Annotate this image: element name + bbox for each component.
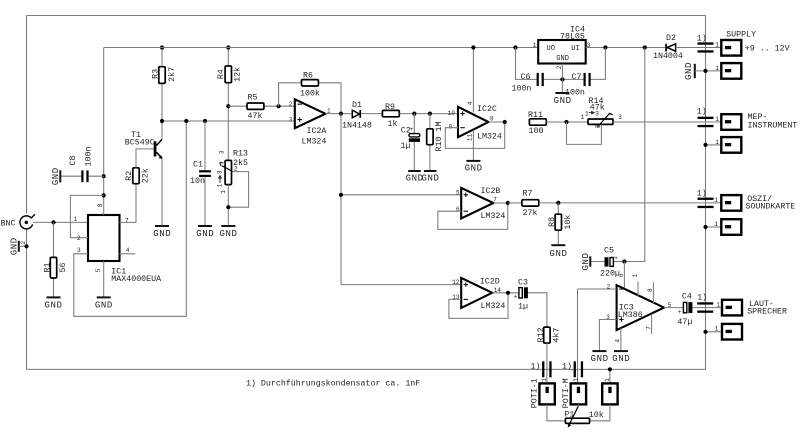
node: POTI ground on bottom wall xyxy=(608,367,612,371)
resistor R11 100 xyxy=(528,111,588,136)
wire: R2 top to T1 base xyxy=(136,149,154,168)
svg-text:8: 8 xyxy=(647,288,654,292)
resistor R8 10k xyxy=(548,203,573,245)
connector OSZI/SOUNDKARTE signal xyxy=(714,194,795,211)
svg-text:27k: 27k xyxy=(523,208,538,218)
node: C7 riser on supply row xyxy=(603,45,607,49)
svg-text:2: 2 xyxy=(607,284,611,291)
svg-text:R13: R13 xyxy=(233,149,248,158)
connector SUPPLY pin GND xyxy=(715,63,741,79)
resistor R5 47k xyxy=(228,94,294,122)
wire: MEP ground pin xyxy=(706,144,722,146)
svg-text:GND: GND xyxy=(591,354,609,364)
node: R4/R5/R13 junction xyxy=(226,104,230,108)
svg-text:220µ: 220µ xyxy=(600,270,620,279)
svg-text:GND: GND xyxy=(549,249,567,259)
svg-text:GND: GND xyxy=(554,96,572,106)
svg-text:1): 1) xyxy=(697,106,707,116)
node: R11/R14 wiper junction xyxy=(564,120,568,124)
svg-text:2: 2 xyxy=(77,235,81,242)
node: IC1 pin3 riser junction xyxy=(184,119,188,123)
svg-text:2: 2 xyxy=(20,241,27,245)
wire: IC1 pin 5 stub xyxy=(103,261,105,297)
svg-text:R6: R6 xyxy=(303,72,313,81)
svg-text:GND: GND xyxy=(196,229,214,239)
node: C6 on rail xyxy=(513,45,517,49)
connector LAUT-SPRECHER signal xyxy=(717,300,788,317)
node: MEP ground on wall xyxy=(703,143,707,147)
wire: shield enclosure right wall xyxy=(705,16,707,370)
node: R5/R6 junction at IC2A pin2 xyxy=(277,104,281,108)
svg-text:100: 100 xyxy=(529,127,544,136)
wire: IC3 pin2 from POTI-M wiper xyxy=(578,288,617,290)
resistor R4 12k xyxy=(217,48,242,161)
node: raw supply rail drop xyxy=(643,45,647,49)
node: BNC signal / R1 junction xyxy=(51,220,55,224)
svg-text:C7: C7 xyxy=(572,73,582,82)
svg-text:12k: 12k xyxy=(233,67,243,82)
svg-text:4: 4 xyxy=(126,247,130,254)
wire: IC3 pin4 stub xyxy=(620,328,622,351)
svg-text:GND: GND xyxy=(95,300,113,310)
svg-text:1: 1 xyxy=(217,183,224,187)
svg-text:+: + xyxy=(678,309,682,316)
wire: shield enclosure top wall xyxy=(27,15,706,17)
svg-text:R3: R3 xyxy=(152,69,161,79)
wire: IC3 pin8 stub xyxy=(652,282,654,303)
svg-text:1: 1 xyxy=(715,42,719,49)
wire: T1 collector up to signal node xyxy=(161,121,163,139)
ground at IC2C pin11 xyxy=(465,161,483,173)
svg-text:1: 1 xyxy=(220,190,227,194)
node: C5/IC3 pin6 junction xyxy=(622,259,626,263)
svg-text:C4: C4 xyxy=(682,293,692,302)
svg-text:1: 1 xyxy=(715,139,719,146)
feedthrough capacitor 1) at POTI-M xyxy=(562,361,583,377)
svg-text:C3: C3 xyxy=(518,279,528,288)
svg-text:1k: 1k xyxy=(388,119,398,129)
svg-text:P1: P1 xyxy=(564,411,574,420)
connector POTI-1 xyxy=(531,378,555,408)
svg-text:LM324: LM324 xyxy=(477,132,502,141)
svg-text:R5: R5 xyxy=(248,94,258,103)
connector POTI-M xyxy=(562,378,586,408)
ground at IC3 pin4 xyxy=(612,351,630,364)
wire: SUPPLY ground pin xyxy=(695,70,722,72)
svg-text:C8: C8 xyxy=(69,156,78,166)
svg-text:5: 5 xyxy=(95,268,102,272)
wire: IC1 pin 4 stub xyxy=(120,253,136,255)
svg-text:10k: 10k xyxy=(563,215,573,230)
capacitor C6 100n xyxy=(512,48,584,94)
node: IC2D output junction xyxy=(506,291,510,295)
svg-text:13: 13 xyxy=(452,294,460,301)
svg-text:100k: 100k xyxy=(300,89,320,99)
svg-text:GND: GND xyxy=(421,174,439,184)
svg-text:1: 1 xyxy=(533,42,537,49)
node: R4 on +5V rail xyxy=(226,45,230,49)
wire: BNC signal to IC1 pin1 xyxy=(33,221,88,223)
svg-text:LM324: LM324 xyxy=(481,302,506,311)
svg-text:BC549C: BC549C xyxy=(125,138,155,147)
wire: IC3 pin6 stub xyxy=(623,262,625,290)
svg-text:4k7: 4k7 xyxy=(551,328,561,343)
svg-text:+: + xyxy=(614,255,618,262)
svg-text:2k7: 2k7 xyxy=(167,67,177,82)
svg-text:100n: 100n xyxy=(512,85,532,94)
svg-text:1µ: 1µ xyxy=(401,142,411,151)
svg-text:1) Durchführungskondensator ca: 1) Durchführungskondensator ca. 1nF xyxy=(246,378,420,388)
wire: raw supply rail down to IC3 xyxy=(624,48,644,262)
capacitor C5 220u electrolytic xyxy=(590,246,624,278)
svg-text:GND: GND xyxy=(51,167,61,185)
connector MEP pin GND xyxy=(715,137,741,153)
svg-text:UO: UO xyxy=(547,45,555,53)
resistor R6 100k feedback xyxy=(279,72,341,114)
connector POTI ground xyxy=(602,378,617,405)
svg-text:47k: 47k xyxy=(248,111,263,121)
svg-text:3: 3 xyxy=(618,114,622,121)
svg-text:SPRECHER: SPRECHER xyxy=(747,308,787,317)
wire: shield enclosure bottom wall xyxy=(27,368,706,370)
svg-text:R11: R11 xyxy=(528,111,543,120)
svg-text:5: 5 xyxy=(456,189,460,196)
svg-text:2: 2 xyxy=(594,124,601,128)
svg-text:IC2C: IC2C xyxy=(477,105,497,114)
capacitor C7 100n xyxy=(565,48,605,98)
svg-text:7: 7 xyxy=(493,196,497,203)
node: C8 junction xyxy=(102,174,106,178)
svg-text:+: + xyxy=(410,126,414,133)
wire: IC3 pin3 to ground xyxy=(599,320,616,352)
svg-text:R12: R12 xyxy=(537,327,546,342)
svg-text:GND: GND xyxy=(581,252,591,270)
svg-text:3: 3 xyxy=(595,110,599,117)
svg-text:100n: 100n xyxy=(85,147,94,167)
connector MEP-INSTRUMENT signal xyxy=(715,113,797,130)
svg-text:GND: GND xyxy=(612,354,630,364)
op-amp IC2C LM324 xyxy=(448,105,502,141)
wire: IC2A output drop to IC2B/IC2D xyxy=(340,114,342,285)
svg-text:6: 6 xyxy=(618,273,625,277)
svg-text:+: + xyxy=(514,294,518,301)
svg-text:GND: GND xyxy=(9,237,19,255)
op-amp IC2D LM324 xyxy=(452,278,505,312)
svg-text:LM324: LM324 xyxy=(481,212,506,221)
node: OSZI ground on wall xyxy=(703,225,707,229)
wire: POTI-M riser xyxy=(577,289,579,383)
trimmer R14 47k xyxy=(567,97,722,145)
wire: IC2B output and feedback xyxy=(438,203,508,230)
svg-text:4: 4 xyxy=(467,101,474,105)
wire: IC3 output xyxy=(664,307,683,309)
svg-text:3: 3 xyxy=(217,170,224,174)
node: shield junction on left wall xyxy=(24,244,28,248)
svg-text:1: 1 xyxy=(74,216,78,223)
svg-text:2: 2 xyxy=(234,166,238,173)
capacitor C8 100n xyxy=(60,147,103,183)
wire: IC1 pin 2 detour xyxy=(70,195,103,237)
feedthrough capacitor 1) at OSZI xyxy=(697,188,714,208)
node: R10 junction xyxy=(428,112,432,116)
ground at IC4 pin 2 xyxy=(554,93,572,106)
op-amp IC1 MAX4000EUA body xyxy=(88,215,161,284)
svg-text:1: 1 xyxy=(632,274,639,278)
svg-text:5: 5 xyxy=(668,302,672,309)
svg-text:1N4004: 1N4004 xyxy=(653,52,683,61)
svg-text:10k: 10k xyxy=(589,410,604,420)
svg-text:9: 9 xyxy=(449,123,453,130)
ground at C1 xyxy=(196,226,214,239)
ground at C2 xyxy=(406,171,424,184)
feedthrough capacitor 1) at SUPPLY xyxy=(697,34,714,53)
node: C2 junction xyxy=(412,112,416,116)
resistor R1 56 xyxy=(43,222,68,297)
svg-text:GND: GND xyxy=(44,300,62,310)
svg-text:47µ: 47µ xyxy=(677,318,692,327)
node: IC2B input branch xyxy=(339,193,343,197)
svg-text:SUPPLY: SUPPLY xyxy=(726,31,756,40)
wire: shield enclosure left wall upper xyxy=(26,16,28,214)
node: SUPPLY ground on wall xyxy=(703,69,707,73)
resistor R2 22k xyxy=(125,168,150,184)
svg-text:POTI-1: POTI-1 xyxy=(531,378,540,408)
wire: IC1 pin 3 detour to signal node xyxy=(74,121,187,316)
svg-text:7: 7 xyxy=(645,326,652,330)
wire: LAUT ground pin xyxy=(706,331,723,333)
svg-text:MAX4000EUA: MAX4000EUA xyxy=(111,275,161,284)
op-amp IC2B LM324 xyxy=(456,187,505,221)
wire: signal node row T1/C1/IC2A xyxy=(162,120,295,122)
ground at BNC shield pin 2 xyxy=(9,237,27,255)
svg-text:1µ: 1µ xyxy=(518,303,528,312)
connector SUPPLY pin + xyxy=(715,31,789,56)
feedthrough capacitor 1) at POTI-1 xyxy=(531,361,552,377)
node: IC2A output junction xyxy=(339,112,343,116)
svg-text:10: 10 xyxy=(448,110,456,117)
transistor T1 BC549C xyxy=(125,131,163,159)
svg-text:1: 1 xyxy=(541,378,548,382)
svg-text:D1: D1 xyxy=(352,101,362,110)
svg-text:1: 1 xyxy=(714,221,718,228)
svg-text:UI: UI xyxy=(571,45,579,53)
svg-text:1: 1 xyxy=(717,302,721,309)
audio amp IC3 LM386 xyxy=(617,285,664,330)
svg-text:INSTRUMENT: INSTRUMENT xyxy=(748,122,798,131)
svg-text:1): 1) xyxy=(697,34,707,44)
svg-text:1: 1 xyxy=(715,116,719,123)
wire: IC2A output row xyxy=(325,113,352,115)
svg-text:C6: C6 xyxy=(521,73,531,82)
svg-text:2: 2 xyxy=(289,101,293,108)
svg-text:GND: GND xyxy=(153,229,171,239)
svg-text:+9 .. 12V: +9 .. 12V xyxy=(745,45,790,54)
resistor R7 27k xyxy=(508,190,722,219)
node: R13 wiper/pin1 junction xyxy=(226,205,230,209)
node: T1 collector junction xyxy=(160,119,164,123)
feedthrough capacitor 1) at MEP xyxy=(697,106,714,127)
svg-text:D2: D2 xyxy=(666,34,676,43)
wire: IC3 pin7 stub xyxy=(651,314,653,334)
node: LAUT ground on wall xyxy=(703,330,707,334)
ground at R8 xyxy=(549,245,567,259)
op-amp IC2A LM324 xyxy=(289,99,331,146)
ground at IC1 pin 5 xyxy=(95,297,113,310)
svg-text:3: 3 xyxy=(218,150,225,154)
svg-text:3: 3 xyxy=(77,247,81,254)
svg-text:R8: R8 xyxy=(548,217,557,227)
wire: IC2C pin4 to +5V rail xyxy=(472,48,474,113)
resistor R12 4k7 xyxy=(537,327,561,383)
svg-text:POTI-M: POTI-M xyxy=(562,378,571,408)
resistor R9 1k xyxy=(382,103,458,129)
ground at T1 emitter xyxy=(153,226,171,239)
wire: +5V rail xyxy=(104,47,539,49)
svg-text:1: 1 xyxy=(604,378,611,382)
trimmer R13 2k5 xyxy=(217,149,249,226)
wire: IC2C pin11 stub xyxy=(472,130,474,160)
svg-text:1: 1 xyxy=(585,110,589,117)
svg-text:12: 12 xyxy=(452,279,460,286)
svg-text:7: 7 xyxy=(125,218,129,225)
ground at R1 xyxy=(44,297,62,310)
resistor R10 1M xyxy=(427,114,444,171)
svg-text:1: 1 xyxy=(715,326,719,333)
wire: IC2D output and feedback xyxy=(449,293,519,319)
capacitor C3 1u electrolytic xyxy=(514,279,547,328)
wire: BNC shield to wall xyxy=(19,245,27,247)
wire: IC3 pin1 stub xyxy=(637,282,639,296)
ground at R10 xyxy=(421,171,439,184)
svg-text:3: 3 xyxy=(289,116,293,123)
node: C6/C7 ground junction xyxy=(560,77,564,81)
svg-text:1): 1) xyxy=(697,292,707,302)
svg-text:78L05: 78L05 xyxy=(560,33,585,42)
wire: T1 emitter down to ground xyxy=(161,159,163,226)
feedthrough capacitor 1) at LAUTSPRECHER xyxy=(697,292,713,313)
capacitor C1 10n xyxy=(190,121,211,226)
svg-text:1): 1) xyxy=(531,361,541,371)
wire: IC2B + input from IC2A xyxy=(341,194,461,196)
wire: shield enclosure left wall lower xyxy=(26,229,28,369)
svg-text:C5: C5 xyxy=(604,246,614,255)
svg-text:SOUNDKARTE: SOUNDKARTE xyxy=(746,203,796,212)
svg-text:1N4148: 1N4148 xyxy=(342,121,372,130)
svg-text:R9: R9 xyxy=(385,103,395,112)
wire: IC4 pin2 stub xyxy=(561,64,563,93)
node: pin2/pin8 junction xyxy=(102,193,106,197)
svg-text:22k: 22k xyxy=(140,168,150,183)
svg-text:4: 4 xyxy=(615,339,622,343)
svg-text:GND: GND xyxy=(219,229,237,239)
wire: IC2C output and feedback xyxy=(445,122,504,148)
svg-text:LM386: LM386 xyxy=(618,311,643,320)
capacitor C2 1u electrolytic xyxy=(401,114,421,171)
connector X1 BNC xyxy=(1,214,35,229)
wire: POTI ground riser xyxy=(609,369,611,383)
svg-text:6: 6 xyxy=(456,206,460,213)
ground at R13 xyxy=(219,226,237,239)
svg-text:3: 3 xyxy=(606,314,610,321)
diode D1 1N4148 xyxy=(342,101,382,130)
svg-text:LM324: LM324 xyxy=(302,138,327,147)
svg-text:1: 1 xyxy=(714,197,718,204)
svg-text:R4: R4 xyxy=(217,69,226,79)
resistor R3 2k7 xyxy=(152,48,177,122)
wire: IC1 pin 7 to R2 xyxy=(120,184,137,223)
svg-text:10n: 10n xyxy=(190,177,205,186)
svg-text:GND: GND xyxy=(556,55,569,63)
node: IC2B output junction xyxy=(506,201,510,205)
capacitor C4 47u electrolytic xyxy=(677,293,722,328)
node: R3 on +5V rail xyxy=(160,45,164,49)
ground at C5 xyxy=(581,252,591,270)
ground at C8 xyxy=(51,167,61,185)
svg-text:BNC: BNC xyxy=(1,220,16,229)
svg-text:56: 56 xyxy=(59,263,68,273)
ground at IC3 pin3 xyxy=(591,351,609,364)
svg-text:GND: GND xyxy=(684,62,694,80)
connector OSZI pin GND xyxy=(714,219,741,235)
svg-text:C1: C1 xyxy=(193,161,203,170)
svg-text:R2: R2 xyxy=(125,171,134,181)
svg-text:11: 11 xyxy=(467,134,474,142)
svg-text:R7: R7 xyxy=(523,190,533,199)
wire: IC4 pin3 row to D2 xyxy=(586,47,666,49)
wire: IC2D + input from IC2A xyxy=(341,284,461,286)
svg-text:GND: GND xyxy=(465,163,483,173)
svg-text:1): 1) xyxy=(562,361,572,371)
potentiometer P1 10k xyxy=(547,404,610,427)
wire: +5V rail drop to IC1 pin 8 xyxy=(103,48,105,216)
svg-text:1: 1 xyxy=(573,378,580,382)
node: IC2C output junction xyxy=(503,120,507,124)
ground at SUPPLY return (rotated) xyxy=(684,62,695,80)
node: IC2C pin4 on rail xyxy=(471,45,475,49)
svg-text:IC2D: IC2D xyxy=(480,278,500,287)
svg-text:R1: R1 xyxy=(43,263,52,273)
node: C1 junction xyxy=(203,119,207,123)
svg-text:IC2B: IC2B xyxy=(481,187,501,196)
svg-text:IC2A: IC2A xyxy=(307,127,327,136)
connector LAUT pin GND xyxy=(715,324,742,340)
voltage regulator IC4 78L05 xyxy=(533,26,591,70)
svg-text:8: 8 xyxy=(97,203,104,207)
diode D2 1N4004 xyxy=(653,34,721,61)
svg-text:1): 1) xyxy=(697,188,707,198)
svg-text:R10 1M: R10 1M xyxy=(435,122,444,152)
node: R7/R8 junction xyxy=(556,201,560,205)
svg-text:1: 1 xyxy=(715,65,719,72)
wire: OSZI ground pin xyxy=(706,226,722,228)
svg-text:1: 1 xyxy=(581,114,585,121)
